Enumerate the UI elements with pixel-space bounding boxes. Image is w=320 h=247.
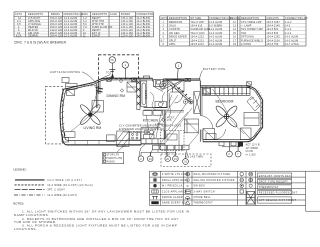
callout 1 left (122, 62, 128, 79)
svg-text:SPLIT: SPLIT (169, 39, 177, 42)
svg-text:DESCRIPTION: DESCRIPTION (241, 17, 259, 20)
distribution panel boxes (153, 145, 190, 150)
svg-text:3. ALL PORCH & RECESSED: 3. ALL PORCH & RECESSED LIGHT FIXTURES M… (22, 224, 177, 228)
svg-text:BEDROOM: BEDROOM (169, 21, 182, 24)
symbol circle small r3 (249, 184, 252, 187)
svg-text:20A # 120: 20A # 120 (50, 34, 63, 37)
svg-text:120 A 100: 120 A 100 (121, 34, 134, 37)
dashed stub line left (80, 85, 98, 87)
svg-text:OPERATING LD: OPERATING LD (64, 13, 84, 16)
svg-text:GENRAL: GENRAL (28, 34, 39, 37)
svg-text:14: 14 (233, 28, 236, 31)
symbol circle tail 1 (240, 172, 244, 177)
svg-text:CEILING MOUNTED FIXTURE: CEILING MOUNTED FIXTURE (193, 179, 234, 182)
svg-text:FURNACE W/BLO: FURNACE W/BLO (241, 39, 263, 42)
svg-text:LOCATIONS.: LOCATIONS. (14, 227, 37, 231)
kitchen bottom wall section (141, 139, 165, 144)
bedroom bottom wall (203, 140, 226, 142)
symbol triangle (185, 201, 190, 204)
symbol boxed s (185, 190, 190, 193)
svg-text:BATH: BATH (144, 90, 148, 99)
svg-text:TAG # 1223: TAG # 1223 (190, 32, 205, 35)
window x-box on top wall (132, 78, 137, 81)
svg-text:6,7: 6,7 (161, 39, 165, 42)
svg-text:CONNECTOR: CONNECTOR (137, 13, 154, 16)
cabinet hatch dining (67, 90, 75, 96)
svg-text:20: 20 (166, 158, 169, 161)
svg-text:2-4-2: 2-4-2 (285, 28, 292, 31)
hall line (168, 109, 185, 111)
bath right wall (168, 80, 169, 108)
symbol box vertical lines (152, 190, 158, 193)
symbol small sq (240, 190, 243, 193)
svg-text:BOARD: BOARD (121, 13, 130, 16)
svg-text:14-2 ALUM: 14-2 ALUM (209, 39, 222, 42)
floorplan (46, 55, 263, 167)
svg-text:DEVICE: DEVICE (230, 17, 240, 20)
svg-text:14-2 ALUM: 14-2 ALUM (209, 36, 222, 39)
top wall hatch ticks (107, 77, 129, 79)
svg-text:15: 15 (233, 32, 236, 35)
svg-text:(= 1,200: (= 1,200 (246, 153, 257, 156)
svg-text:14-2 ALUM: 14-2 ALUM (285, 36, 298, 39)
svg-text:CIRCUITS: CIRCUITS (266, 17, 279, 20)
rear window box (247, 82, 252, 85)
svg-text:14-2 ALUM: 14-2 ALUM (285, 39, 298, 42)
symbol circle tail 2 (240, 178, 244, 182)
wires kitchen converging (146, 95, 199, 145)
svg-text:7MA: 7MA (241, 32, 247, 35)
rear wall hatch (256, 91, 263, 135)
front wall hatch (60, 93, 66, 137)
svg-text:CIRC: CIRC (82, 13, 89, 16)
diamond on top wall (119, 79, 122, 82)
right wardrobe hatched (247, 97, 260, 112)
svg-text:S: S (187, 184, 189, 188)
front bottom box (62, 138, 69, 143)
bedroom cabinets bottom (206, 128, 251, 140)
kitchen counter (141, 128, 161, 140)
wheel well (117, 131, 129, 147)
bath sink counter (155, 102, 167, 108)
svg-text:104 # 834: 104 # 834 (266, 32, 279, 35)
symbol circle dot (240, 184, 244, 188)
callout circle 20 (165, 156, 171, 162)
bedroom cabinet left with door arc (203, 129, 226, 140)
svg-text:104 # 824: 104 # 824 (266, 28, 279, 31)
bedroom fan (215, 105, 239, 129)
svg-text:6-2 W/BRN: 6-2 W/BRN (209, 25, 223, 28)
svg-text:1-A-2: 1-A-2 (285, 21, 292, 24)
svg-text:CHIME BELL: CHIME BELL (193, 196, 211, 199)
symbol texts column 3 boxed (258, 173, 292, 203)
symbol dot ringed (153, 178, 157, 182)
dashed callout box bottom (161, 154, 211, 166)
svg-text:104 # 615: 104 # 615 (190, 25, 203, 28)
svg-text:A COND: A COND (241, 43, 251, 46)
callout circle 6 (227, 142, 233, 157)
svg-text:CTG TABLE LMP: CTG TABLE LMP (241, 21, 262, 24)
dinette dashed box (161, 131, 184, 151)
svg-text:AW GEN: AW GEN (169, 32, 180, 35)
symbol fan circle hatch r1 (249, 172, 253, 176)
svg-text:CONNECTOR CLR: CONNECTOR CLR (209, 17, 232, 20)
svg-text:16: 16 (184, 161, 187, 164)
boxed fixture list (102, 145, 126, 163)
svg-text:WT SIZE: WT SIZE (190, 17, 201, 20)
panel schedule table right row text (161, 17, 308, 46)
bedroom top wall (200, 81, 246, 88)
svg-text:DESCRIPTN: DESCRIPTN (92, 13, 107, 16)
svg-text:104 # 1957: 104 # 1957 (266, 21, 280, 24)
dinette inner marks (165, 131, 179, 151)
svg-text:CADMIUM 1249: CADMIUM 1249 (190, 28, 210, 31)
hall line lower (168, 111, 185, 113)
marks below bedroom wall (219, 142, 240, 147)
callout 1 right (175, 62, 181, 79)
svg-text:104 # 1213: 104 # 1213 (190, 39, 204, 42)
fridge box (184, 119, 198, 133)
step box lower-left (65, 132, 75, 138)
svg-text:12-2 ALUM: 12-2 ALUM (64, 34, 77, 37)
svg-text:18: 18 (233, 43, 236, 46)
symbol filled bar (151, 201, 158, 204)
dashed control box (99, 55, 139, 79)
vanity cabinets (143, 111, 163, 116)
svg-text:BRIGE ASPER: BRIGE ASPER (169, 36, 187, 39)
svg-text:NOTES:: NOTES: (13, 202, 24, 206)
svg-text:134 # 1104: 134 # 1104 (266, 39, 280, 42)
svg-text:CONNECTOR LDS: CONNECTOR LDS (285, 17, 308, 20)
bath sink (158, 102, 162, 106)
svg-text:104 # 1223: 104 # 1223 (190, 36, 204, 39)
svg-text:CKTS: CKTS (15, 13, 22, 16)
dining cabinets top-left (66, 84, 78, 96)
svg-text:SMOKE ALARM: SMOKE ALARM (162, 196, 183, 199)
wire from post to control box (96, 75, 112, 83)
symbol bell (185, 197, 190, 200)
callout circle 7 (235, 142, 241, 157)
rear end outline (203, 86, 263, 142)
shower pan with X (167, 80, 185, 93)
svg-text:CLOS APPLIANCE: CLOS APPLIANCE (162, 190, 187, 193)
svg-text:LIGHT & FAN CONTROL: LIGHT & FAN CONTROL (50, 71, 81, 74)
bath tub (141, 81, 147, 107)
svg-text:14-2 BLKW: 14-2 BLKW (137, 34, 151, 37)
svg-text:DESCRIPTN: DESCRIPTN (28, 13, 43, 16)
ceiling wires dining living bedroom (70, 86, 244, 134)
svg-text:DINING RM: DINING RM (107, 94, 126, 98)
symbol big X fan box (247, 192, 255, 205)
svg-text:TA: TA (110, 58, 114, 62)
cabinet above wall at bath (144, 76, 150, 78)
svg-text:3PT. C XGHT: 3PT. C XGHT (47, 188, 65, 192)
symbol dot filled (153, 184, 156, 187)
legend line long dash (15, 189, 45, 191)
wire drops to callouts (139, 145, 188, 158)
svg-text:EXHST: EXHST (92, 34, 101, 37)
symbol lamp cross (185, 172, 190, 177)
svg-text:LIVING RM: LIVING RM (84, 126, 102, 130)
rear end inner (203, 87, 261, 139)
callout circle 1A (147, 156, 153, 162)
svg-text:RECESSED FLUORESCENT: RECESSED FLUORESCENT (259, 192, 298, 195)
svg-text:RADIO: RADIO (106, 160, 114, 163)
top wall mid section (164, 79, 201, 81)
svg-text:A WHITE LTS FIXT: A WHITE LTS FIXT (162, 173, 188, 176)
svg-text:LOAD: LOAD (110, 13, 117, 16)
legend line solid 14-2 (15, 179, 45, 180)
legend line dash-dot 12-2 (14, 194, 45, 196)
vent box outside front (62, 78, 69, 83)
legend line dashed 14-2 (15, 184, 45, 186)
galley box on bottom wall (107, 135, 116, 142)
dining fan (79, 103, 102, 126)
panel schedule table right (160, 16, 306, 46)
extra kitchen wires (158, 108, 192, 146)
rear wall extra hatch (254, 93, 263, 137)
kitchen right wall (164, 110, 166, 139)
bottom wall left section (67, 139, 141, 146)
switch symbol (109, 70, 115, 74)
leader wire battery pipe (200, 71, 203, 81)
svg-text:BEDROOM: BEDROOM (216, 99, 234, 103)
bath wavy wires (150, 92, 172, 118)
svg-text:WALL MOUNTED FIXTURE: WALL MOUNTED FIXTURE (193, 173, 230, 176)
svg-text:ALL 14/2 THRU: ALL 14/2 THRU (185, 156, 204, 159)
svg-text:SMALL APPLIANCE: SMALL APPLIANCE (162, 179, 189, 182)
svg-text:15: 15 (174, 158, 177, 161)
bath door arcs (166, 80, 185, 103)
corner post (96, 80, 104, 94)
symbol diamond (186, 178, 190, 182)
circuit schedule table left (14, 12, 153, 37)
angled bath wall (176, 88, 193, 104)
svg-text:APPL: APPL (169, 43, 176, 46)
svg-text:SAME EVERY BOX: SAME EVERY BOX (162, 202, 188, 205)
svg-text:12: 12 (233, 21, 236, 24)
trailer outline outer (60, 78, 141, 145)
svg-text:17: 17 (233, 39, 236, 42)
svg-text:TAG # 1957: TAG # 1957 (190, 21, 205, 24)
svg-text:104 # 1213: 104 # 1213 (190, 43, 204, 46)
svg-text:BRKRS: BRKRS (51, 13, 60, 16)
svg-text:14-2: 14-2 (285, 25, 291, 28)
svg-text:OPTIONAL: OPTIONAL (241, 36, 255, 39)
entry door opening (153, 78, 167, 91)
svg-text:4-4-2: 4-4-2 (285, 32, 292, 35)
symbol receptacle duplex (152, 172, 158, 176)
svg-text:134 # 759: 134 # 759 (266, 43, 279, 46)
svg-text:1A: 1A (149, 158, 152, 161)
bedroom desk (244, 113, 259, 126)
svg-text:THERMOSTAT: THERMOSTAT (193, 202, 213, 205)
svg-text:THERMOSTAT: THERMOSTAT (259, 186, 279, 189)
window x-box mid wall (185, 78, 191, 81)
circuit schedule table left row text (15, 13, 153, 37)
diamond dining (120, 89, 123, 92)
svg-text:SW BOX: SW BOX (193, 185, 205, 188)
leader wire light fan control (82, 72, 97, 85)
svg-text:14-2 WIRE (15 A CKT): 14-2 WIRE (15 A CKT) (47, 178, 82, 182)
svg-text:16: 16 (233, 36, 236, 39)
wire bus to callout circles (141, 150, 186, 159)
bath bottom wall (144, 108, 168, 110)
svg-text:CONSTR: CONSTR (169, 28, 180, 31)
svg-text:GALS: GALS (169, 25, 176, 28)
svg-text:GPT CEILING FIXT FRONT: GPT CEILING FIXT FRONT (259, 199, 297, 202)
svg-text:CKTS: CKTS (161, 17, 168, 20)
callout TA (109, 57, 115, 70)
stove box (130, 132, 141, 140)
svg-text:LEGEND:: LEGEND: (13, 167, 26, 171)
svg-text:EXHAUST JOINTS FAN: EXHAUST JOINTS FAN (259, 175, 291, 178)
trailer outline inner front (62, 80, 141, 140)
dashed hitch box (46, 86, 63, 143)
svg-text:LTS: LTS (167, 119, 172, 122)
svg-text:BATTERY PIPE: BATTERY PIPE (203, 67, 226, 71)
svg-text:14-2 ALUM: 14-2 ALUM (209, 21, 222, 24)
bedroom top wall hatch (205, 85, 242, 87)
svg-text:TO1: TO1 (106, 72, 112, 75)
dining partition wall (96, 84, 98, 108)
svg-text:14-7 A/TAG: 14-7 A/TAG (285, 43, 299, 46)
svg-text:14-2 ALUM: 14-2 ALUM (209, 28, 222, 31)
overhead cabinet living (92, 101, 104, 113)
symbol legend table grid (150, 171, 320, 211)
symbol pi (152, 196, 158, 199)
svg-text:14-2 ALUM: 14-2 ALUM (209, 32, 222, 35)
bedroom left partition (200, 81, 213, 142)
bed (203, 87, 251, 95)
svg-text:13: 13 (233, 25, 236, 28)
svg-text:14-2 WIRE (15 A CKT) (LO-T: 14-2 WIRE (15 A CKT) (LO-TH-G) (47, 183, 93, 187)
circle symbols pair at angled wall (183, 100, 193, 104)
bed pillows (203, 88, 251, 94)
bath left wall hatched (137, 78, 140, 110)
diamond kitchen (162, 118, 165, 121)
callout circle 16 (183, 159, 189, 165)
svg-text:134 # 1292: 134 # 1292 (266, 36, 280, 39)
bottom wall ticks (75, 140, 99, 145)
wardrobe with X at bedroom wall (194, 92, 201, 114)
svg-text:14-2 ALUM: 14-2 ALUM (209, 43, 222, 46)
toilet (160, 82, 166, 90)
svg-text:3-WAY SWITCH: 3-WAY SWITCH (193, 190, 215, 193)
svg-text:8,2A: 8,2A (16, 34, 22, 37)
svg-text:DESCRIPTION: DESCRIPTION (169, 17, 187, 20)
cabinets right of dining (127, 82, 137, 92)
svg-text:104 # 2149: 104 # 2149 (266, 25, 280, 28)
door swing lines at entry (164, 81, 182, 90)
svg-text:W I PRISCILLA: W I PRISCILLA (162, 185, 183, 188)
callout circle 2 (138, 156, 144, 162)
svg-text:— LAMP: — LAMP (241, 25, 252, 28)
top wall left section (105, 78, 153, 80)
window x-box 2 on top wall (107, 78, 112, 81)
symbol fan circle hatch r2 (249, 178, 253, 182)
callout circle 15 (173, 156, 179, 162)
svg-text:12-2 WIRE (20 A CKT): 12-2 WIRE (20 A CKT) (47, 193, 77, 197)
svg-text:CIRC. 7 & 8 IS (W) A/C BRE: CIRC. 7 & 8 IS (W) A/C BREAKER (14, 41, 67, 45)
svg-text:SPOT TYPE RECEPT: SPOT TYPE RECEPT (259, 181, 288, 184)
svg-text:TAIL DINSET LMP: TAIL DINSET LMP (241, 28, 263, 31)
